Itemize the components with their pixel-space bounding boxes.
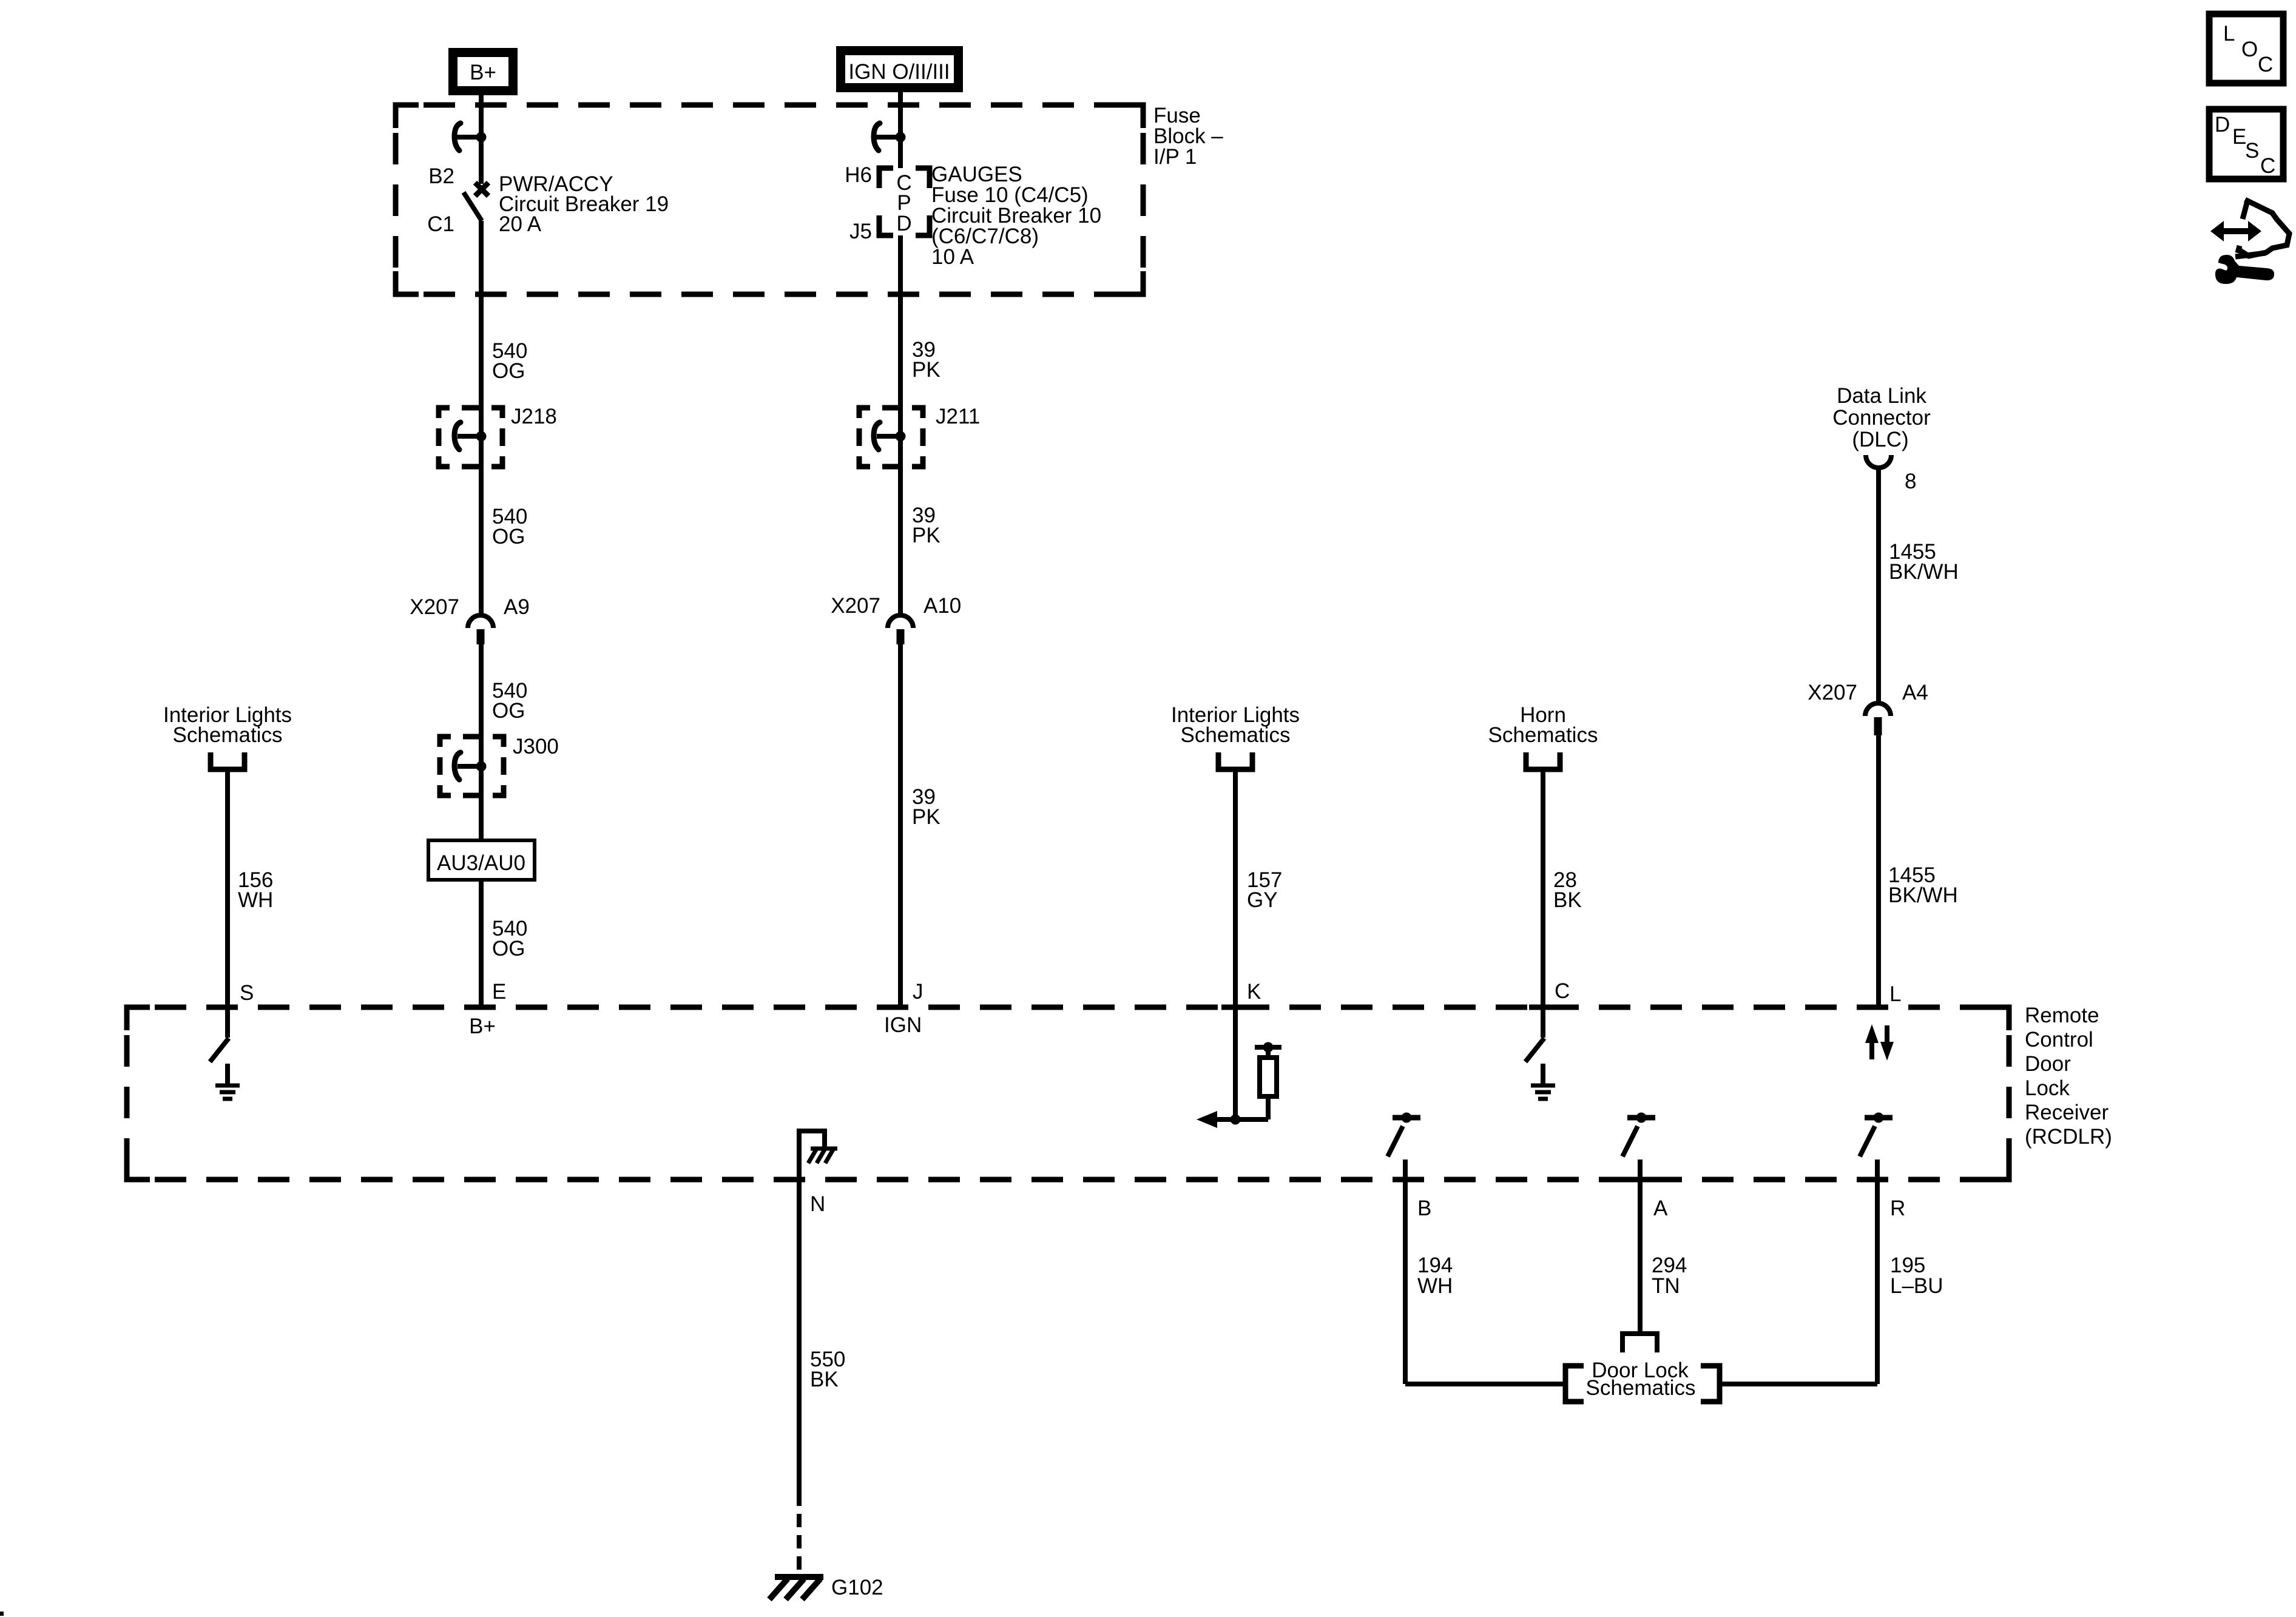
svg-text:E: E: [492, 980, 506, 1004]
svg-text:S: S: [240, 981, 254, 1005]
svg-text:D: D: [2215, 113, 2230, 137]
svg-text:C: C: [2258, 53, 2273, 76]
svg-text:J5: J5: [849, 220, 872, 243]
svg-text:L: L: [2223, 22, 2235, 46]
svg-text:IGN: IGN: [884, 1013, 922, 1037]
svg-text:WH: WH: [238, 888, 273, 912]
svg-text:X207: X207: [410, 595, 459, 619]
svg-text:E: E: [2232, 125, 2246, 149]
svg-text:J300: J300: [513, 735, 559, 758]
svg-text:OG: OG: [492, 699, 525, 723]
svg-text:Data Link: Data Link: [1837, 384, 1926, 408]
svg-text:Receiver: Receiver: [2025, 1101, 2109, 1124]
svg-text:B+: B+: [469, 1014, 496, 1038]
svg-text:R: R: [1890, 1197, 1905, 1220]
svg-text:X207: X207: [831, 594, 880, 618]
svg-text:Schematics: Schematics: [173, 723, 283, 747]
svg-text:C: C: [2260, 154, 2275, 178]
svg-text:B2: B2: [428, 164, 454, 188]
svg-text:Schematics: Schematics: [1586, 1376, 1696, 1400]
svg-text:AU3/AU0: AU3/AU0: [437, 851, 525, 875]
svg-text:I/P 1: I/P 1: [1153, 145, 1197, 169]
svg-text:C1: C1: [427, 212, 454, 236]
svg-text:(DLC): (DLC): [1852, 428, 1908, 451]
svg-text:L–BU: L–BU: [1890, 1274, 1943, 1298]
svg-text:K: K: [1247, 980, 1261, 1004]
svg-text:H6: H6: [845, 163, 872, 187]
svg-text:OG: OG: [492, 525, 525, 549]
svg-text:J211: J211: [936, 405, 980, 428]
svg-text:TN: TN: [1652, 1274, 1680, 1298]
svg-text:Remote: Remote: [2025, 1004, 2099, 1027]
svg-text:A4: A4: [1902, 681, 1928, 704]
svg-text:B+: B+: [470, 61, 496, 84]
svg-text:Lock: Lock: [2025, 1076, 2070, 1100]
svg-text:(RCDLR): (RCDLR): [2025, 1125, 2112, 1149]
svg-text:G102: G102: [831, 1576, 883, 1599]
svg-text:GY: GY: [1247, 888, 1278, 912]
svg-text:PK: PK: [912, 524, 940, 547]
svg-text:B: B: [1417, 1197, 1431, 1220]
svg-text:S: S: [2245, 139, 2259, 163]
svg-text:10 A: 10 A: [931, 245, 974, 269]
svg-text:PK: PK: [912, 805, 940, 829]
svg-text:A10: A10: [923, 594, 961, 618]
svg-text:J218: J218: [511, 405, 557, 428]
svg-text:20 A: 20 A: [499, 212, 542, 236]
svg-text:OG: OG: [492, 937, 525, 960]
svg-text:Control: Control: [2025, 1028, 2093, 1052]
svg-text:BK: BK: [1553, 888, 1582, 912]
svg-text:Door: Door: [2025, 1052, 2071, 1076]
svg-text:WH: WH: [1417, 1274, 1453, 1298]
svg-text:A9: A9: [504, 595, 530, 619]
svg-text:Connector: Connector: [1832, 406, 1931, 430]
svg-text:L: L: [1889, 982, 1901, 1006]
svg-text:OG: OG: [492, 359, 525, 383]
svg-text:BK: BK: [810, 1368, 839, 1391]
svg-text:PK: PK: [912, 358, 940, 382]
svg-text:O: O: [2241, 38, 2258, 61]
svg-text:BK/WH: BK/WH: [1889, 560, 1959, 584]
svg-text:D: D: [896, 212, 911, 235]
svg-text:Schematics: Schematics: [1488, 723, 1598, 747]
svg-text:N: N: [810, 1192, 825, 1216]
svg-text:A: A: [1653, 1197, 1668, 1220]
svg-text:BK/WH: BK/WH: [1888, 883, 1958, 907]
svg-text:Schematics: Schematics: [1181, 723, 1291, 747]
svg-text:X207: X207: [1808, 681, 1857, 704]
svg-text:C: C: [1555, 979, 1570, 1003]
svg-text:J: J: [913, 980, 923, 1004]
svg-text:IGN O/II/III: IGN O/II/III: [848, 60, 950, 84]
svg-text:8: 8: [1905, 470, 1916, 493]
